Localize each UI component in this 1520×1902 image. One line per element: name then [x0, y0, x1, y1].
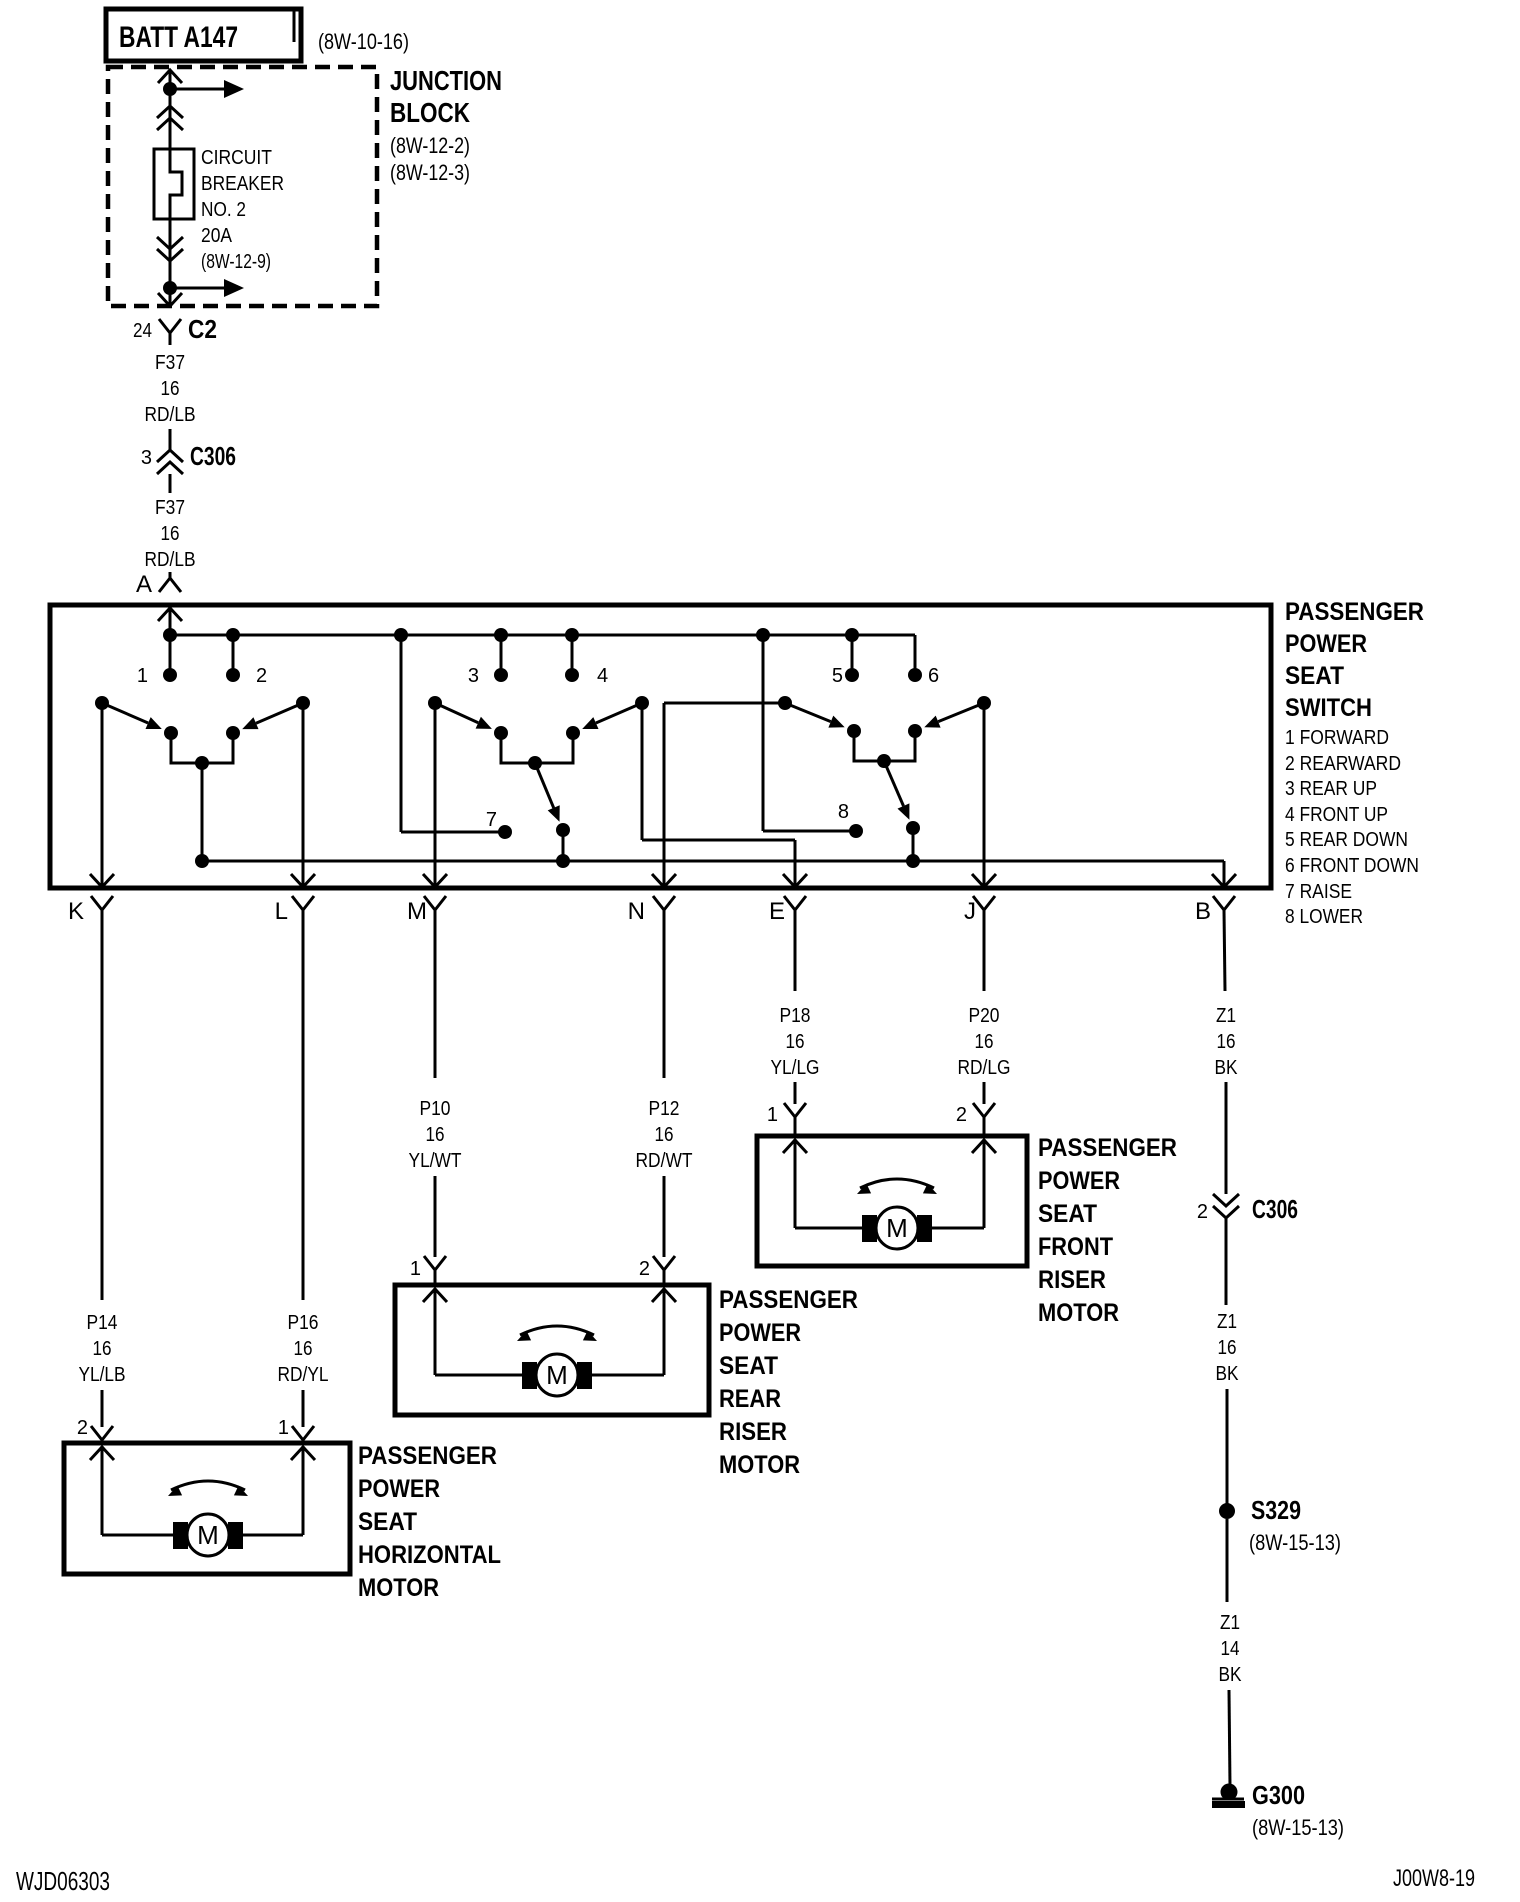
terminal 1 [137, 665, 177, 687]
bus node t2 feed [226, 628, 240, 642]
terminal feed stub [851, 635, 854, 675]
svg-text:8: 8 [838, 801, 849, 823]
wire label Z1 16 BK (upper) [1215, 1005, 1239, 1079]
svg-text:BK: BK [1216, 1363, 1240, 1385]
svg-text:M: M [197, 1520, 219, 1550]
rear riser motor pin 2 connector [639, 1256, 675, 1286]
rear riser motor label [719, 1286, 858, 1479]
terminal 2 [226, 665, 267, 687]
bus node t3 feed [494, 628, 508, 642]
wire [1226, 1389, 1229, 1505]
wire label Z1 16 BK (lower) [1216, 1311, 1240, 1385]
wire [169, 89, 172, 150]
front riser motor rotation arrow [860, 1179, 934, 1188]
svg-text:YL/WT: YL/WT [409, 1150, 462, 1172]
svg-text:(8W-12-3): (8W-12-3) [390, 160, 470, 185]
terminal 8 [763, 635, 863, 838]
svg-text:3: 3 [468, 665, 479, 687]
svg-text:16: 16 [1218, 1337, 1237, 1359]
svg-text:16: 16 [975, 1031, 994, 1053]
wire M down [434, 910, 437, 1078]
junction node inside block (bottom) [163, 281, 177, 295]
switch wiper arrow to contact 6 [924, 703, 984, 728]
switch pin B connector [1195, 896, 1235, 925]
wire [169, 474, 172, 493]
svg-text:1 FORWARD: 1 FORWARD [1285, 727, 1389, 749]
svg-text:16: 16 [1217, 1031, 1236, 1053]
svg-text:1: 1 [278, 1417, 289, 1439]
horizontal motor label [358, 1442, 501, 1602]
switch pin E connector [769, 896, 806, 925]
wire K lower [101, 1390, 104, 1427]
svg-text:POWER: POWER [1038, 1167, 1120, 1195]
wire E lower [794, 1082, 797, 1104]
switch wiper arrow to contact 3 [435, 703, 492, 729]
svg-text:16: 16 [161, 378, 180, 400]
svg-text:RD/LB: RD/LB [145, 404, 196, 426]
wire label F37 16 RD/LB (upper) [145, 352, 196, 426]
rear riser motor rotation arrow [520, 1326, 594, 1335]
svg-text:POWER: POWER [719, 1319, 801, 1347]
svg-text:6 FRONT DOWN: 6 FRONT DOWN [1285, 855, 1419, 877]
switch pole E-feed (group 2 right) [635, 696, 649, 710]
wire J down [983, 910, 986, 991]
svg-text:8 LOWER: 8 LOWER [1285, 906, 1363, 928]
down arrow at junction block exit [158, 293, 182, 306]
switch pole L (group 1 right) [296, 696, 310, 710]
svg-text:16: 16 [93, 1338, 112, 1360]
splice S329 [1219, 1495, 1341, 1555]
bus node t7 feed [394, 628, 408, 642]
svg-text:NO. 2: NO. 2 [201, 199, 246, 221]
contact under terminal 1 [164, 726, 178, 740]
horizontal motor rotation arrow [171, 1481, 245, 1490]
svg-text:5 REAR DOWN: 5 REAR DOWN [1285, 829, 1408, 851]
svg-text:(8W-15-13): (8W-15-13) [1252, 1815, 1344, 1840]
svg-text:14: 14 [1221, 1638, 1240, 1660]
wire label F37 16 RD/LB (lower) [145, 497, 196, 571]
front riser motor M [862, 1215, 877, 1242]
switch pole M (group 2 left) [428, 696, 442, 710]
wire from BATT into junction block with up arrow [158, 70, 182, 92]
horizontal motor internal wiring [102, 1446, 303, 1535]
wire [1225, 1082, 1228, 1194]
wire E-feed jog [642, 703, 795, 888]
switch wiper arrow pole L to contact 2 [242, 703, 303, 729]
terminal 3 [468, 665, 508, 687]
terminal 5 [832, 665, 859, 687]
front riser motor entry arrows [783, 1140, 996, 1153]
svg-text:C306: C306 [190, 441, 236, 471]
svg-text:C306: C306 [1252, 1194, 1298, 1224]
svg-text:MOTOR: MOTOR [719, 1451, 800, 1479]
wiper arrow group 2 to node 7 side [535, 763, 570, 837]
svg-text:Z1: Z1 [1216, 1005, 1236, 1027]
svg-text:2: 2 [256, 665, 267, 687]
contact under terminal 6 [908, 724, 922, 738]
svg-text:1: 1 [137, 665, 148, 687]
junction node inside block (top) [163, 82, 177, 96]
node return bus group2 [556, 854, 570, 868]
wire label Z1 14 BK [1219, 1612, 1243, 1686]
svg-text:SEAT: SEAT [719, 1352, 778, 1380]
battery feed box BATT A147 [106, 9, 301, 61]
junction block dashed boundary [108, 67, 377, 306]
circuit breaker label [201, 147, 284, 273]
wire N down [663, 910, 666, 1078]
bus node t8 feed [756, 628, 770, 642]
switch pin K connector [68, 896, 113, 925]
rear riser motor M [522, 1362, 537, 1389]
svg-text:2 REARWARD: 2 REARWARD [1285, 753, 1401, 775]
svg-text:RISER: RISER [1038, 1266, 1106, 1294]
wire L lower [302, 1390, 305, 1427]
svg-text:SEAT: SEAT [358, 1508, 417, 1536]
svg-text:RD/LG: RD/LG [958, 1057, 1011, 1079]
connector C2 pin 24 [133, 314, 217, 345]
switch pin J connector [964, 896, 995, 925]
svg-text:4: 4 [597, 665, 608, 687]
svg-text:PASSENGER: PASSENGER [1285, 598, 1424, 626]
exit arrows at switch bottom edge [90, 874, 1236, 887]
wiper arrow group 3 to node 8 side [884, 761, 920, 835]
svg-text:WJD06303: WJD06303 [16, 1866, 110, 1896]
svg-text:Z1: Z1 [1220, 1612, 1240, 1634]
svg-text:F37: F37 [155, 497, 185, 519]
wire label P20 16 RD/LG [958, 1005, 1011, 1079]
svg-text:4 FRONT UP: 4 FRONT UP [1285, 804, 1388, 826]
svg-text:M: M [407, 898, 427, 925]
svg-text:M: M [546, 1360, 568, 1390]
svg-text:20A: 20A [201, 225, 233, 247]
svg-text:SEAT: SEAT [1038, 1200, 1097, 1228]
terminal feed stub [500, 635, 503, 675]
terminal 4 [565, 665, 608, 687]
bus drop to terminal 6 [914, 635, 917, 675]
switch pole N (group 3 left) [778, 696, 792, 710]
svg-text:7 RAISE: 7 RAISE [1285, 881, 1352, 903]
svg-text:F37: F37 [155, 352, 185, 374]
svg-text:L: L [275, 898, 288, 925]
svg-text:MOTOR: MOTOR [1038, 1299, 1119, 1327]
svg-text:24: 24 [133, 320, 152, 342]
wire N horizontal link [664, 702, 785, 705]
svg-text:REAR: REAR [719, 1385, 781, 1413]
terminal 6 [908, 665, 939, 687]
wire L down [302, 910, 305, 1300]
svg-text:P12: P12 [649, 1098, 680, 1120]
svg-text:RISER: RISER [719, 1418, 787, 1446]
svg-text:P10: P10 [420, 1098, 451, 1120]
switch wiper arrow to contact 5 [785, 703, 845, 728]
wire label P18 16 YL/LG [771, 1005, 820, 1079]
svg-text:(8W-12-2): (8W-12-2) [390, 133, 470, 158]
wire [169, 429, 172, 450]
wire label P14 16 YL/LB [79, 1312, 126, 1386]
svg-text:BATT A147: BATT A147 [119, 21, 238, 54]
wire B down [1224, 910, 1225, 991]
return bus inside switch [202, 860, 1224, 863]
switch pin A entry [136, 571, 181, 598]
svg-text:16: 16 [161, 523, 180, 545]
common bar group 2 [501, 733, 573, 770]
in-line connector chevrons (below breaker) [157, 237, 183, 261]
wire K down [101, 910, 104, 1300]
passenger power seat switch box [50, 605, 1271, 888]
common bar group 3 [854, 731, 915, 768]
switch pole J (group 3 right) [977, 696, 991, 710]
svg-text:C2: C2 [188, 314, 217, 344]
switch pin N connector [628, 896, 675, 925]
svg-text:6: 6 [928, 665, 939, 687]
in-line connector chevrons (top) [157, 106, 183, 130]
svg-text:M: M [886, 1213, 908, 1243]
horizontal motor entry arrows [90, 1447, 315, 1460]
svg-text:16: 16 [786, 1031, 805, 1053]
svg-text:POWER: POWER [358, 1475, 440, 1503]
front riser motor pin 1 connector [767, 1103, 806, 1137]
svg-text:MOTOR: MOTOR [358, 1574, 439, 1602]
terminal feed stub [232, 635, 235, 675]
svg-text:RD/YL: RD/YL [278, 1364, 329, 1386]
svg-text:JUNCTION: JUNCTION [390, 65, 502, 96]
terminal feed stub [571, 635, 574, 675]
svg-text:16: 16 [294, 1338, 313, 1360]
branch arrow right (top) [170, 80, 244, 98]
svg-text:J: J [964, 898, 976, 925]
wire J lower [983, 1082, 986, 1104]
terminal feed stub [169, 635, 172, 675]
svg-text:BK: BK [1215, 1057, 1239, 1079]
svg-text:FRONT: FRONT [1038, 1233, 1113, 1261]
contact under terminal 3 [494, 726, 508, 740]
horizontal motor pin 2 connector [77, 1417, 113, 1444]
front riser motor internal wiring [795, 1139, 984, 1228]
switch pole K (group 1 left) [95, 696, 109, 710]
svg-text:16: 16 [655, 1124, 674, 1146]
wire [562, 830, 565, 861]
wire pole J to terminal J [983, 703, 986, 888]
svg-text:1: 1 [410, 1258, 421, 1280]
front riser motor pin 2 connector [956, 1103, 995, 1137]
contact under terminal 2 [226, 726, 240, 740]
circuit breaker NO. 2 20A [154, 149, 194, 219]
bus node t5 feed [845, 628, 859, 642]
svg-text:PASSENGER: PASSENGER [719, 1286, 858, 1314]
supply bus inside switch [170, 634, 915, 637]
connector C306 pin 2 [1197, 1194, 1298, 1224]
svg-text:2: 2 [639, 1258, 650, 1280]
wire below breaker [169, 219, 172, 306]
svg-text:SWITCH: SWITCH [1285, 694, 1372, 722]
svg-text:Z1: Z1 [1217, 1311, 1237, 1333]
ground G300 [1212, 1780, 1344, 1840]
bus drop to terminal B [1223, 861, 1226, 888]
passenger power seat front riser motor box [757, 1136, 1027, 1266]
svg-text:A: A [136, 571, 152, 598]
wire [912, 828, 915, 861]
horizontal motor pin 1 connector [278, 1417, 314, 1444]
wire E down [794, 910, 797, 991]
wire pole K to terminal K [101, 703, 104, 888]
svg-text:BLOCK: BLOCK [390, 97, 470, 128]
bus node at A drop [163, 628, 177, 642]
svg-text:2: 2 [77, 1417, 88, 1439]
wire label P16 16 RD/YL [278, 1312, 329, 1386]
wire [1225, 1218, 1228, 1305]
wire pole L to terminal L [302, 703, 305, 888]
contact under terminal 5 [847, 724, 861, 738]
passenger power seat horizontal motor box [64, 1443, 350, 1574]
contact under terminal 4 [566, 726, 580, 740]
svg-text:5: 5 [832, 665, 843, 687]
svg-text:P20: P20 [969, 1005, 1000, 1027]
svg-text:P16: P16 [288, 1312, 319, 1334]
svg-text:N: N [628, 898, 645, 925]
svg-text:E: E [769, 898, 785, 925]
rear riser motor pin 1 connector [410, 1256, 446, 1286]
wire [1229, 1690, 1230, 1786]
svg-text:3: 3 [141, 447, 152, 469]
svg-text:2: 2 [1197, 1201, 1208, 1223]
svg-text:G300: G300 [1252, 1780, 1305, 1810]
svg-text:PASSENGER: PASSENGER [358, 1442, 497, 1470]
entry arrow into switch at A [158, 608, 182, 635]
svg-text:(8W-10-16): (8W-10-16) [318, 29, 409, 54]
connector C306 pin 3 [141, 441, 236, 474]
junction block label [390, 65, 502, 185]
wire N drop to terminal N [663, 703, 666, 888]
bus node t4 feed [565, 628, 579, 642]
wire label P12 16 RD/WT [636, 1098, 693, 1172]
svg-text:RD/LB: RD/LB [145, 549, 196, 571]
svg-text:PASSENGER: PASSENGER [1038, 1134, 1177, 1162]
svg-text:HORIZONTAL: HORIZONTAL [358, 1541, 501, 1569]
horizontal motor M [173, 1522, 188, 1549]
svg-text:RD/WT: RD/WT [636, 1150, 693, 1172]
svg-text:POWER: POWER [1285, 630, 1367, 658]
svg-text:BK: BK [1219, 1664, 1243, 1686]
wire pole M to terminal M [434, 703, 437, 888]
svg-text:S329: S329 [1251, 1495, 1301, 1525]
svg-text:J00W8-19: J00W8-19 [1393, 1865, 1475, 1892]
wire M lower [434, 1176, 437, 1257]
switch pin M connector [407, 896, 446, 925]
svg-text:YL/LG: YL/LG [771, 1057, 820, 1079]
node return bus group3 [906, 854, 920, 868]
svg-text:3 REAR UP: 3 REAR UP [1285, 778, 1377, 800]
terminal 7 [401, 635, 512, 839]
svg-text:16: 16 [426, 1124, 445, 1146]
rear riser motor internal wiring [435, 1288, 664, 1375]
svg-text:P14: P14 [87, 1312, 118, 1334]
svg-text:CIRCUIT: CIRCUIT [201, 147, 272, 169]
svg-text:B: B [1195, 898, 1211, 925]
wire [1226, 1519, 1229, 1602]
svg-text:1: 1 [767, 1104, 778, 1126]
passenger power seat rear riser motor box [395, 1285, 709, 1415]
common bar group 1 [171, 733, 233, 770]
svg-text:BREAKER: BREAKER [201, 173, 284, 195]
svg-text:YL/LB: YL/LB [79, 1364, 126, 1386]
svg-text:2: 2 [956, 1104, 967, 1126]
svg-text:K: K [68, 898, 84, 925]
node return bus left [195, 854, 209, 868]
front riser motor label [1038, 1134, 1177, 1327]
svg-text:7: 7 [486, 809, 497, 831]
switch wiper arrow pole K to contact 1 [102, 703, 162, 729]
svg-text:SEAT: SEAT [1285, 662, 1344, 690]
svg-text:P18: P18 [780, 1005, 811, 1027]
switch legend [1285, 598, 1424, 928]
rear riser motor entry arrows [423, 1289, 676, 1302]
switch wiper arrow to contact 4 [582, 703, 642, 729]
wire group1 common to lower bus [201, 763, 204, 861]
branch arrow right (bottom) [170, 279, 244, 297]
wire label P10 16 YL/WT [409, 1098, 462, 1172]
svg-text:(8W-12-9): (8W-12-9) [201, 251, 271, 273]
svg-text:(8W-15-13): (8W-15-13) [1249, 1530, 1341, 1555]
wire N lower [663, 1176, 666, 1257]
switch pin L connector [275, 896, 314, 925]
